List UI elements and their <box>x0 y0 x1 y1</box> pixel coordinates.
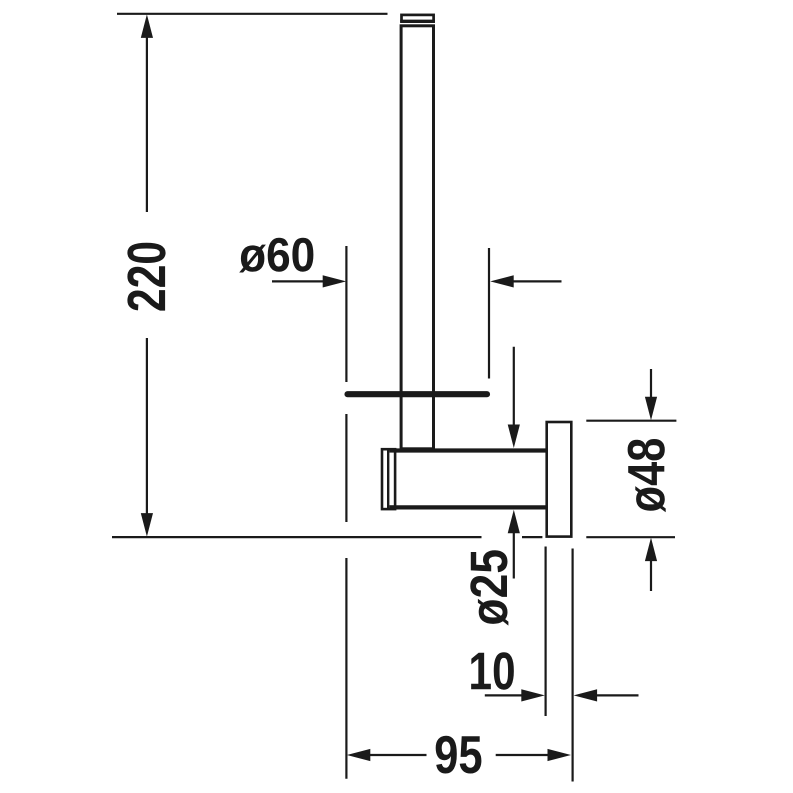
dim 95 right arrow <box>496 754 550 756</box>
dim 220 line lower shaft <box>146 338 148 515</box>
dim 95 left arrow <box>347 749 371 761</box>
dim 220 arrow up <box>141 14 153 38</box>
dim 10 label <box>471 652 514 690</box>
dim o60 right extension line <box>488 248 490 379</box>
dim o60 label <box>239 238 313 273</box>
dim o48 bottom extension line <box>586 536 675 538</box>
dim o25 top arrow <box>513 347 515 425</box>
dim o48 top arrow <box>650 369 652 398</box>
dim o60 left extension line (dashed) <box>345 246 347 382</box>
dim o48 label <box>628 439 666 512</box>
dim 10 left arrow <box>485 694 523 696</box>
dim 220 label <box>127 243 165 311</box>
dim 95 label <box>436 736 482 774</box>
cylinder arm top edge <box>396 448 547 452</box>
dim o25 bottom arrow <box>508 510 520 534</box>
wall plate <box>547 422 572 537</box>
cylinder left end cap <box>382 449 395 509</box>
dim 220 line upper shaft <box>146 36 148 212</box>
dim 220 top extension line <box>117 13 388 15</box>
dim 220 bottom reference dash <box>522 536 542 538</box>
dim o48 bottom arrow <box>645 538 657 562</box>
rod top cap <box>402 15 434 22</box>
rod tube body <box>401 26 433 449</box>
dim o60 left arrow <box>272 280 324 282</box>
dim 10 left extension line <box>544 547 546 717</box>
cylinder arm bottom edge <box>396 505 547 509</box>
dim o60 right arrow <box>490 275 514 287</box>
dim o25 label <box>470 550 508 625</box>
dim 220 arrow down <box>141 513 153 537</box>
dim o48 top extension line <box>586 420 676 422</box>
dim 220 bottom reference line <box>112 536 482 538</box>
roll stop plate bar <box>348 391 488 397</box>
dim 10 right arrow <box>574 689 598 701</box>
dim 10 right extension line <box>571 549 573 782</box>
